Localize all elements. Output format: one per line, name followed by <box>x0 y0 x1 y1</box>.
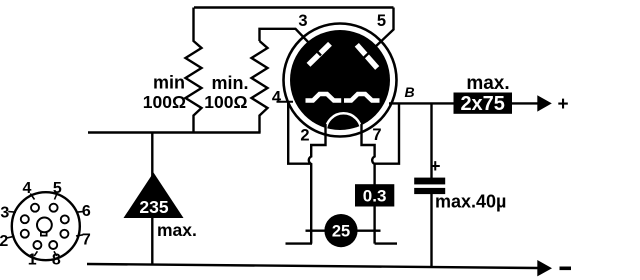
wire capacitor to bottom bus <box>430 194 432 266</box>
capacitor C1 bottom plate <box>414 188 445 194</box>
wire top bus to anode pin 5 <box>364 8 394 59</box>
svg-text:25: 25 <box>332 223 350 241</box>
heater terminal stub right <box>375 242 397 244</box>
socket outline bottom view <box>12 192 80 260</box>
svg-text:2x75: 2x75 <box>460 93 505 115</box>
socket spigot keyway <box>41 231 47 235</box>
svg-text:100Ω: 100Ω <box>204 92 247 112</box>
resistor 2x75 box <box>454 93 513 114</box>
svg-text:7: 7 <box>82 231 91 248</box>
svg-text:100Ω: 100Ω <box>143 92 186 112</box>
svg-text:2: 2 <box>0 233 8 250</box>
heater voltage circle 25 <box>324 214 357 247</box>
socket tick 2 <box>7 236 15 238</box>
svg-text:+: + <box>557 94 568 115</box>
filament hat left <box>306 94 342 101</box>
socket tick 1 <box>34 251 37 256</box>
svg-text:3: 3 <box>298 12 307 30</box>
socket hole 1 <box>33 241 41 249</box>
svg-text:max.40µ: max.40µ <box>435 192 506 212</box>
wire node B output <box>389 102 538 104</box>
svg-text:6: 6 <box>82 203 91 220</box>
svg-text:min: min <box>153 73 185 93</box>
svg-text:4: 4 <box>272 89 282 107</box>
socket tick 6 <box>76 211 83 214</box>
wire bottom bus <box>87 264 538 268</box>
socket tick 5 <box>55 194 58 200</box>
svg-text:max.: max. <box>157 220 197 240</box>
arrow - output <box>537 260 552 276</box>
pin 4 stub <box>277 101 294 103</box>
resistor R1 min 100ohm <box>186 8 202 133</box>
wire heater left branch (dome left side down) <box>309 124 326 244</box>
socket hole 3 <box>21 215 29 223</box>
socket hole 2 <box>21 230 29 238</box>
label - output <box>560 267 572 271</box>
wire through 25 <box>306 229 381 231</box>
socket tick 7 <box>76 235 83 236</box>
socket tick 3 <box>8 211 16 214</box>
svg-text:5: 5 <box>377 12 386 30</box>
cathode dome arc <box>326 113 361 131</box>
svg-text:7: 7 <box>372 126 381 144</box>
socket hole 6 <box>61 215 69 223</box>
wire HT branch down from mid bus <box>151 133 153 265</box>
socket hole 8 <box>49 241 57 249</box>
svg-text:0.3: 0.3 <box>363 187 387 206</box>
wire pin2 outer drop <box>288 102 311 164</box>
heater terminal stub left <box>286 242 313 244</box>
socket hole 7 <box>60 230 68 238</box>
svg-text:B: B <box>404 84 414 100</box>
svg-text:235: 235 <box>139 197 168 217</box>
filament hat right <box>344 94 380 101</box>
wire heater right branch (dome right side down) <box>362 124 375 244</box>
tube V1 outer circle <box>284 24 397 137</box>
anode plate pin 3 (white bar) <box>309 44 331 65</box>
tube V1 envelope black disc <box>290 30 390 130</box>
socket hole 4 <box>31 204 39 212</box>
transformer rating triangle 235 max <box>124 173 184 219</box>
wire top bus <box>194 6 394 8</box>
resistor 0.3 box <box>355 184 394 206</box>
svg-text:min.: min. <box>211 73 248 93</box>
socket tick 4 <box>30 194 34 200</box>
svg-text:3: 3 <box>0 204 9 221</box>
wire mid-left bus <box>88 131 261 133</box>
resistor R2 min 100ohm <box>252 41 268 133</box>
arrow + output <box>537 95 552 111</box>
capacitor C1 top plate <box>414 178 445 185</box>
socket tick 8 <box>54 251 57 256</box>
anode plate pin 5 (white bar) <box>357 45 377 68</box>
wire R2 top to anode pin 3 <box>260 29 322 56</box>
svg-text:2: 2 <box>300 127 309 145</box>
wire capacitor branch <box>430 103 432 178</box>
svg-text:+: + <box>430 156 441 176</box>
wire B node drop to heater right <box>375 103 399 163</box>
socket hole 5 <box>50 204 58 212</box>
svg-text:max.: max. <box>466 73 509 94</box>
socket center spigot <box>37 218 52 233</box>
